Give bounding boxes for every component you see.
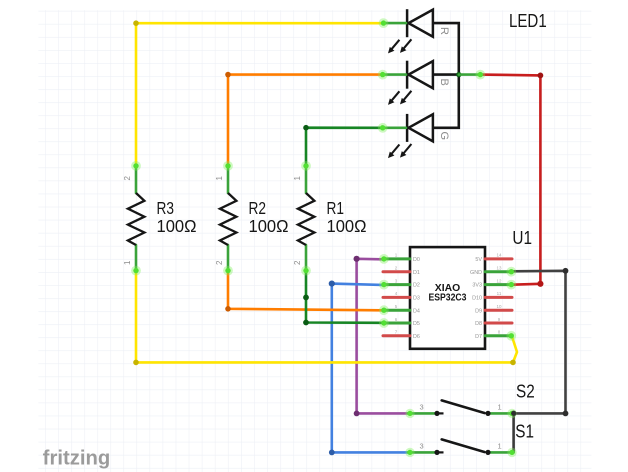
svg-text:R: R <box>438 27 450 35</box>
U1 pin 9 D8 leg <box>485 322 512 325</box>
wire bendpoint blue (331.8,283.6) <box>329 281 335 287</box>
svg-text:GND: GND <box>470 270 482 276</box>
wire blue: U1 D2 to S1 pin3 <box>332 284 408 453</box>
R2 zigzag body <box>220 193 237 245</box>
S1 pin 1 segment <box>488 451 514 454</box>
svg-text:S2: S2 <box>516 381 535 401</box>
svg-text:2: 2 <box>123 175 132 180</box>
wire bendpoint orange (228,74.6) <box>225 72 231 78</box>
wire yellow: LED1-R cathode to R3 top <box>136 23 384 166</box>
resistor R1 <box>293 166 367 271</box>
svg-text:5V: 5V <box>475 257 482 263</box>
op IC U1 XIAO ESP32C3 <box>383 228 532 349</box>
svg-text:D6: D6 <box>413 334 420 340</box>
wire junction dot (513.6,413.4) <box>511 411 517 417</box>
svg-text:100Ω: 100Ω <box>327 216 367 236</box>
node: LED anode bus junction <box>456 72 461 77</box>
wire bendpoint purple (356.6,258.8) <box>354 256 360 262</box>
node U1 D5 <box>379 318 389 328</box>
node LED1-G cathode <box>378 123 388 133</box>
S1 lever <box>442 439 485 452</box>
svg-text:D0: D0 <box>413 257 420 263</box>
wire bendpoint red (540.4,75.4) <box>538 73 544 79</box>
wire bendpoint blue (331.8,452.4) <box>329 450 335 456</box>
U1 pin 12 3V3 leg <box>485 283 512 286</box>
svg-text:D9: D9 <box>475 308 482 314</box>
node U1 D7 <box>506 331 516 341</box>
svg-text:U1: U1 <box>512 228 532 248</box>
LED1 anode bus wire (black) <box>433 23 459 128</box>
node LED1-B anode <box>475 70 485 80</box>
wire bendpoint orange (228,308.8) <box>225 306 231 312</box>
node LED1-B cathode <box>378 70 388 80</box>
node R3 pin1 <box>131 266 141 276</box>
wire purple: U1 D0 to S2 pin3 <box>357 259 408 414</box>
svg-text:3: 3 <box>420 441 424 450</box>
node R3 pin2 <box>131 161 141 171</box>
U1 body <box>410 247 485 349</box>
svg-text:1: 1 <box>123 260 132 265</box>
svg-text:10: 10 <box>496 304 502 309</box>
LED1-B emission arrows <box>388 91 411 105</box>
svg-text:fritzing: fritzing <box>43 448 111 470</box>
wire bendpoint green (306,322.5) <box>303 320 309 326</box>
wire bendpoint purple (356.6,413.4) <box>354 411 360 417</box>
U1 pin 11 D10 leg <box>485 296 512 299</box>
resistor R2 <box>215 166 289 271</box>
LED1-B cathode pin green segment <box>383 73 406 76</box>
node R1 pin1 <box>301 161 311 171</box>
S1 left contact <box>434 450 439 455</box>
node U1 D2 <box>379 280 389 290</box>
wire yellow: R3 bottom to U1 D7 <box>136 271 517 363</box>
svg-text:1: 1 <box>498 441 502 450</box>
svg-text:2: 2 <box>215 260 224 265</box>
node S1 pin3 <box>405 448 414 457</box>
S2 pin 1 segment <box>488 412 514 415</box>
U1 pin 8 D7 leg <box>485 334 512 337</box>
wire bendpoint yellow (513,362) <box>510 360 516 366</box>
svg-text:D4: D4 <box>413 308 420 314</box>
svg-text:3V3: 3V3 <box>472 283 482 289</box>
wire orange: R2 bottom to U1 D4 <box>228 271 382 311</box>
LED1 element G: diode symbol <box>407 114 433 142</box>
svg-text:3: 3 <box>420 402 424 411</box>
S2 pin 3 segment <box>408 412 437 415</box>
LED1-G cathode pin green segment <box>383 127 406 130</box>
svg-text:2: 2 <box>293 260 302 265</box>
wire red: LED1 anode bus to U1 3V3 <box>480 75 540 285</box>
U1 pin 6 D5 leg <box>383 322 410 325</box>
node S2 pin3 <box>405 409 414 418</box>
node U1 3V3 <box>506 280 516 290</box>
svg-text:1: 1 <box>215 175 224 180</box>
R1 zigzag body <box>298 193 315 245</box>
wire bendpoint green (306,127.7) <box>303 125 309 131</box>
LED1-G emission arrows <box>388 144 411 158</box>
svg-text:12: 12 <box>496 278 502 283</box>
LED1-R emission arrows <box>388 39 411 53</box>
wire green: R1 bottom to U1 D5 <box>306 271 382 323</box>
R1 pin 2 terminal (bottom) <box>305 245 308 271</box>
svg-text:G: G <box>438 132 450 141</box>
U1 pin 7 D6 leg <box>383 334 410 337</box>
svg-text:11: 11 <box>497 291 502 296</box>
node LED1-R cathode <box>379 18 389 28</box>
wire junction dot over glow at S2 pin1 <box>511 411 516 416</box>
svg-text:13: 13 <box>496 266 502 271</box>
svg-text:R3: R3 <box>157 198 175 218</box>
wire bendpoint green (306,297.4) <box>303 295 309 301</box>
U1 pin 5 D4 leg <box>383 309 410 312</box>
wire bendpoint gray (565.5,413.4) <box>563 411 569 417</box>
U1 pin 14 5V leg <box>485 257 512 260</box>
svg-text:LED1: LED1 <box>509 11 547 31</box>
LED1-R cathode pin green segment <box>384 22 407 25</box>
svg-text:B: B <box>438 79 450 86</box>
wire junction bendpoint yellow (136,23) <box>133 20 139 26</box>
svg-text:D8: D8 <box>475 321 482 327</box>
wire dark: S2 pin1 to S1 pin1 <box>512 413 515 452</box>
svg-text:R2: R2 <box>249 198 267 218</box>
LED1 element R: diode symbol <box>407 9 433 37</box>
node R1 pin2 <box>301 266 311 276</box>
svg-text:1: 1 <box>293 175 302 180</box>
node R2 pin2 <box>223 266 233 276</box>
svg-text:D1: D1 <box>413 270 420 276</box>
wire bendpoint gray (565.5,270.8) <box>563 268 569 274</box>
svg-text:14: 14 <box>496 253 502 258</box>
node S2 pin1 <box>507 409 516 418</box>
U1 pin 2 D1 leg <box>383 270 410 273</box>
U1 pin 13 GND leg <box>485 270 512 273</box>
wire bendpoint yellow (136,362) <box>133 360 139 366</box>
R1 pin 1 terminal (top) <box>305 166 308 193</box>
S1 right contact <box>485 450 490 455</box>
U1 pin numbers left 1-7 <box>395 253 398 335</box>
wire gray: U1 GND to S2 pin1 <box>512 271 566 414</box>
switch S2 <box>408 381 535 416</box>
LED1 element B: diode symbol <box>407 61 433 89</box>
wire green: LED1-G cathode to R1 top <box>306 128 383 166</box>
U1 pin 4 D3 leg <box>383 296 410 299</box>
U1 pin numbers right 14-8 <box>496 253 502 335</box>
svg-text:D2: D2 <box>413 283 420 289</box>
node U1 D0 <box>379 254 389 264</box>
svg-text:D7: D7 <box>475 334 482 340</box>
U1 pin 3 D2 leg <box>383 283 410 286</box>
U1 pin 1 D0 leg <box>383 257 410 260</box>
svg-text:100Ω: 100Ω <box>249 216 289 236</box>
R2 pin 2 terminal (bottom) <box>227 245 230 271</box>
S2 right contact <box>485 411 490 416</box>
svg-text:S1: S1 <box>515 421 534 441</box>
connection glow nodes (green highlights) <box>131 18 517 457</box>
svg-text:D3: D3 <box>413 296 420 302</box>
node R2 pin1 <box>223 161 233 171</box>
R3 zigzag body <box>128 193 144 245</box>
svg-text:D5: D5 <box>413 321 420 327</box>
R3 pin 1 terminal (bottom) <box>135 245 138 271</box>
node U1 GND <box>506 267 516 277</box>
svg-text:D10: D10 <box>472 296 482 302</box>
S2 left contact <box>434 411 439 416</box>
LED1-B anode pin green segment <box>459 73 481 76</box>
S1 pin 3 segment <box>408 451 437 454</box>
S2 lever <box>442 400 485 413</box>
resistor R3 <box>123 166 197 271</box>
svg-text:ESP32C3: ESP32C3 <box>429 292 467 303</box>
svg-text:1: 1 <box>498 402 502 411</box>
svg-text:100Ω: 100Ω <box>157 216 197 236</box>
svg-text:R1: R1 <box>327 198 345 218</box>
U1 pin 10 D9 leg <box>485 309 512 312</box>
switch S1 <box>408 421 534 455</box>
wire bendpoint red (540.4,283.8) <box>537 281 543 287</box>
node U1 D4 <box>379 305 389 315</box>
R3 pin 2 terminal (top) <box>135 166 138 193</box>
R2 pin 1 terminal (top) <box>227 166 230 193</box>
wire orange: LED1-B cathode to R2 top <box>228 75 383 166</box>
node S1 pin1 <box>507 448 516 457</box>
